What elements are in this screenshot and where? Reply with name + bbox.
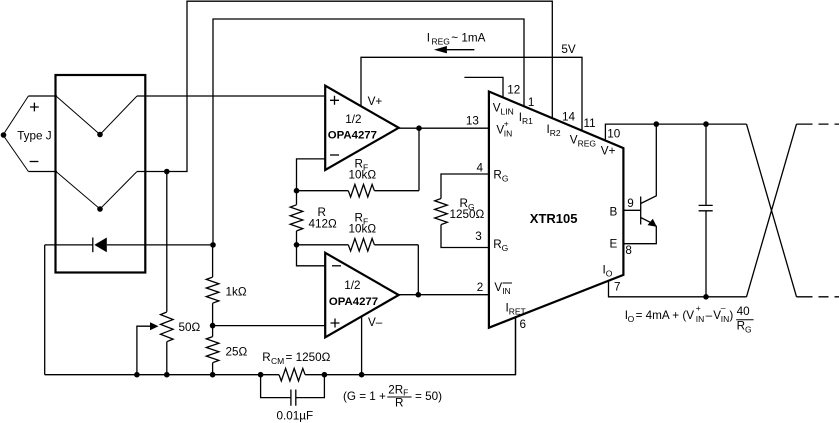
svg-text:14: 14: [562, 110, 576, 123]
svg-text:6: 6: [520, 318, 527, 331]
svg-text:~ 1mA: ~ 1mA: [451, 32, 485, 45]
svg-text:V+: V+: [601, 145, 616, 158]
svg-text:IN: IN: [504, 129, 513, 139]
svg-text:9: 9: [627, 197, 634, 210]
svg-text:O: O: [628, 314, 635, 324]
svg-text:R: R: [395, 396, 403, 409]
node U2 output: [416, 292, 422, 298]
node pot bottom bus: [164, 372, 170, 378]
op-amp U2 1/2 OPA4277 bottom: [325, 253, 399, 337]
svg-text:R: R: [262, 351, 270, 364]
svg-text:7: 7: [614, 280, 621, 293]
svg-text:+: +: [696, 303, 701, 313]
svg-text:(G = 1 +: (G = 1 +: [343, 390, 386, 403]
wire U1 feedback down: [418, 128, 420, 191]
twisted pair cross: [747, 124, 797, 297]
wire pin 6 IRET: [515, 317, 517, 375]
wire plus to op-amp U1: [137, 95, 325, 97]
wire thermocouple plus lead: [28, 95, 57, 97]
node lower junction: [97, 206, 103, 212]
svg-text:IN: IN: [696, 314, 705, 324]
op-amp U1 1/2 OPA4277 top: [325, 86, 399, 170]
potentiometer 50: [166, 342, 168, 375]
resistor RG 1250: [441, 174, 489, 248]
XTR105 body: [489, 92, 624, 328]
node cap bottom: [703, 294, 709, 300]
svg-text:= 4mA + (V: = 4mA + (V: [636, 309, 695, 322]
wire minus node feedback loop top: [137, 1, 552, 171]
node V- bus: [359, 372, 365, 378]
wire U2 output to pin 2: [399, 294, 489, 296]
svg-text:Type J: Type J: [17, 130, 51, 143]
svg-text:12: 12: [507, 84, 520, 97]
dashed line bottom: [797, 296, 839, 298]
op-amp U1 minus mark: [330, 154, 339, 156]
wire pin 10 V+: [605, 124, 746, 139]
svg-text:1/2: 1/2: [344, 279, 360, 292]
svg-text:OPA4277: OPA4277: [329, 296, 378, 308]
svg-text:8: 8: [625, 244, 632, 257]
svg-text:10kΩ: 10kΩ: [349, 169, 377, 182]
op-amp U2 plus mark: [331, 319, 340, 328]
lower thermocouple junction V: [56, 172, 137, 210]
resistor RCM 1250: [279, 368, 305, 381]
resistor 1k: [212, 245, 214, 326]
svg-text:5V: 5V: [561, 43, 576, 56]
resistor 25: [212, 326, 214, 375]
wiper arrow: [137, 326, 152, 375]
svg-text:IN: IN: [721, 314, 730, 324]
svg-text:1: 1: [528, 96, 535, 109]
wire U1 output to pin 13: [399, 127, 489, 129]
pin 12 stub: [464, 77, 503, 97]
node 25 bottom bus: [210, 372, 216, 378]
svg-text:CM: CM: [271, 356, 284, 366]
wire U2 inverting input: [297, 245, 326, 266]
svg-text:2: 2: [477, 281, 484, 294]
wire diode down left: [44, 245, 46, 375]
svg-text:REG: REG: [432, 37, 450, 47]
svg-text:XTR105: XTR105: [530, 211, 578, 226]
svg-text:E: E: [610, 238, 618, 251]
wire U2 plus input: [213, 325, 326, 327]
svg-text:OPA4277: OPA4277: [328, 129, 377, 141]
cold junction compensation box: [56, 75, 146, 273]
wire minus node to 50ohm pot: [166, 172, 168, 312]
IREG arrow: [445, 49, 474, 51]
svg-text:I: I: [427, 32, 430, 45]
wire U2 V- stub to bus: [361, 316, 363, 374]
diode D1: [45, 244, 213, 246]
label plus: [30, 103, 39, 112]
resistor RF1 10k: [297, 190, 420, 192]
node U1 output: [416, 125, 422, 131]
node upper junction: [97, 132, 103, 138]
svg-text:B: B: [610, 205, 618, 218]
node diode 1k junction: [210, 242, 216, 248]
svg-text:–: –: [721, 302, 726, 312]
svg-text:0.01µF: 0.01µF: [277, 410, 314, 423]
capacitor 0.01uF branch: [261, 375, 325, 398]
op-amp U2 minus mark: [332, 265, 341, 267]
svg-text:= 50): = 50): [415, 390, 442, 403]
node collector V+: [654, 121, 660, 127]
node pot wiper bus: [134, 372, 140, 378]
svg-text:11: 11: [584, 117, 596, 130]
node cap top: [703, 121, 709, 127]
svg-text:1/2: 1/2: [345, 113, 361, 126]
svg-text:25Ω: 25Ω: [226, 346, 248, 359]
svg-text:): ): [729, 309, 733, 322]
upper thermocouple junction V: [56, 96, 137, 135]
svg-text:1kΩ: 1kΩ: [226, 286, 247, 299]
svg-text:V+: V+: [368, 95, 383, 108]
wire pin 7 IO out: [609, 281, 747, 297]
node 1k 25 junction: [210, 323, 216, 329]
svg-text:10: 10: [607, 127, 621, 140]
wire U2 feedback up: [417, 245, 419, 295]
svg-text:412Ω: 412Ω: [309, 218, 338, 231]
svg-text:G: G: [745, 325, 752, 335]
node RF2 R junction: [294, 242, 300, 248]
thermocouple Type J symbol: [3, 96, 28, 172]
wire U1 V+ to 5V rail: [361, 57, 582, 130]
node thermocouple tip: [1, 132, 7, 138]
svg-text:50Ω: 50Ω: [179, 321, 201, 334]
svg-text:= 1250Ω: = 1250Ω: [286, 351, 331, 364]
bottom bus wire: [45, 317, 516, 375]
svg-text:40: 40: [737, 305, 751, 318]
svg-text:R: R: [737, 320, 745, 333]
wire U1 inverting input: [297, 159, 326, 191]
node minus junction: [164, 169, 170, 175]
svg-text:13: 13: [466, 114, 479, 127]
transistor Q1: [623, 209, 640, 211]
svg-text:3: 3: [475, 230, 482, 243]
svg-text:+: +: [504, 119, 509, 129]
svg-text:1250Ω: 1250Ω: [450, 208, 485, 221]
svg-text:–: –: [706, 309, 713, 322]
svg-text:4: 4: [477, 162, 484, 175]
resistor RF2 10k: [297, 244, 419, 246]
wire IR1 loop: [213, 19, 524, 245]
dashed line top: [797, 123, 839, 125]
wire thermocouple minus lead: [28, 171, 57, 173]
node RCM left: [258, 372, 264, 378]
node RF1 R junction: [294, 188, 300, 194]
svg-text:10kΩ: 10kΩ: [349, 222, 377, 235]
resistor R 412: [296, 191, 298, 245]
label minus: [30, 161, 39, 163]
node RCM right: [322, 372, 328, 378]
capacitor output: [705, 124, 707, 297]
svg-text:V–: V–: [368, 316, 383, 329]
op-amp U1 plus mark: [330, 96, 339, 105]
